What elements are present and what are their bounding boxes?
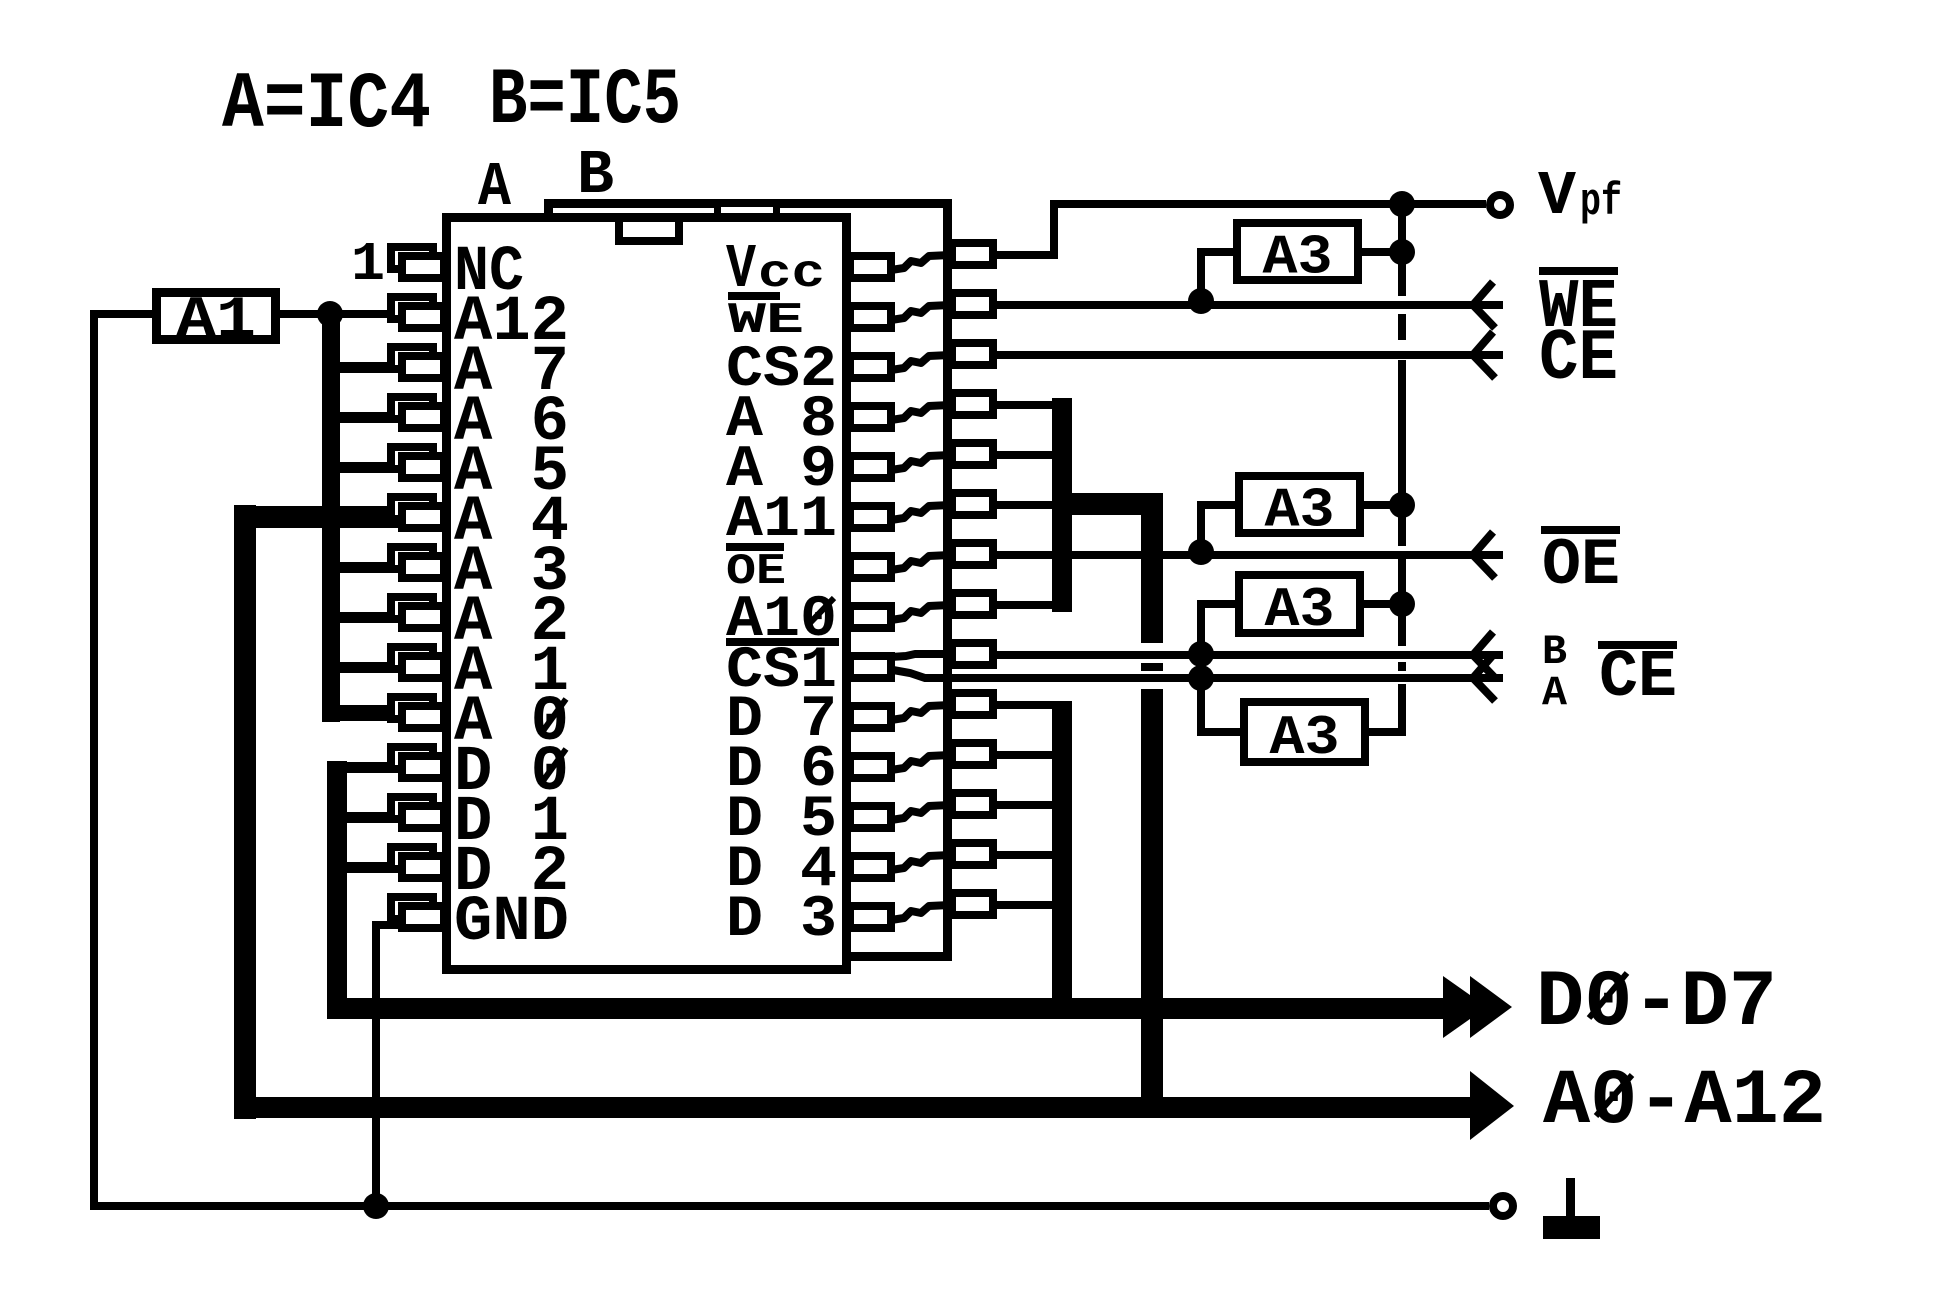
wire OE line (995, 551, 1503, 559)
wire B CE line (995, 651, 1503, 659)
pin Vcc right (B) box (952, 243, 993, 265)
node A3#4-ACE junction (1188, 665, 1214, 691)
lead A3#1 left to WE line (1201, 252, 1233, 301)
pin D 6 right (A) box (850, 756, 891, 778)
ground symbol (1543, 1178, 1600, 1239)
pin A 8 right (B) box (952, 393, 993, 415)
outer vertical bus to address bus (upper) (1141, 497, 1163, 643)
IC A notch (619, 218, 679, 241)
pin CS2 right (B) box (952, 343, 993, 365)
wire A1 feed (322, 662, 402, 673)
slash of zero in D0-D7 (1589, 973, 1627, 1018)
pin D 3 squiggle link (891, 905, 950, 920)
arrow CE (1473, 332, 1495, 378)
address bus vertical (A12..A0 collector) (322, 314, 340, 722)
wire Vcc to Vpf rail (995, 204, 1486, 255)
svg-text:A3: A3 (1265, 479, 1335, 543)
box A3 #1 (1237, 223, 1358, 280)
svg-text:A3: A3 (1263, 226, 1333, 290)
wire left vertical to ground rail (90, 310, 98, 1206)
wire A6 feed (322, 412, 402, 423)
wire CE line (995, 351, 1503, 359)
pin A 9 right (B) box (952, 443, 993, 465)
pin D 1 left (A) box (402, 806, 444, 828)
pin label OE (726, 543, 786, 597)
node A3#1-WE junction (1188, 288, 1214, 314)
svg-text:A3: A3 (1270, 706, 1340, 770)
wire A0 feed (bus bottom bend) (322, 705, 402, 721)
data bus D0-D7 horizontal (327, 998, 1446, 1019)
wire D6 to collector (995, 751, 1062, 759)
pin CS1 right (A) box (850, 656, 891, 678)
wire D2 feed (327, 862, 402, 873)
pin A 2 left (A) box (402, 606, 444, 628)
lead A3#3 right (1364, 600, 1402, 608)
outer vertical bus dash between CE lines (1141, 663, 1163, 671)
svg-text:A: A (1542, 669, 1568, 717)
collector bar A8/A9/A11/A10 (1052, 398, 1072, 612)
box A1 (address buffer) (157, 293, 276, 340)
pin WE right (B) box (952, 293, 993, 315)
pin D 0 left (B) box (391, 747, 433, 769)
pin D 7 right (B) box (952, 693, 993, 715)
pin A 0 left (B) box (391, 697, 433, 719)
pin OE squiggle link (891, 555, 950, 570)
svg-text:A: A (478, 152, 512, 223)
pin A 9 squiggle link (891, 455, 950, 470)
wire A10 to collector (995, 601, 1062, 609)
svg-text:OE: OE (1542, 528, 1620, 603)
arrow B CE (1473, 632, 1495, 678)
IC B (IC5) body outline (549, 204, 948, 957)
wire A9 to collector (995, 451, 1062, 459)
pin A 1 left (B) box (391, 647, 433, 669)
wire D3 to collector (995, 901, 1062, 909)
svg-text:pf: pf (1580, 177, 1622, 228)
pin A 6 left (A) box (402, 406, 444, 428)
svg-text:D 3: D 3 (726, 888, 837, 953)
slash of zero in pin label A 0 (540, 699, 566, 735)
wire A2 feed (322, 612, 402, 623)
wire D7 to collector (995, 701, 1062, 709)
pin D 6 right (B) box (952, 743, 993, 765)
svg-text:V: V (1538, 161, 1577, 232)
arrow OE (1473, 532, 1495, 578)
wire D1 feed (327, 812, 402, 823)
pin OE right (A) box (850, 556, 891, 578)
wire A CE line (893, 670, 1503, 678)
pin D 3 right (B) box (952, 893, 993, 915)
label OE (overline) (1541, 526, 1620, 603)
pin A 4 left (B) box (391, 497, 433, 519)
pin A 5 left (A) box (402, 456, 444, 478)
lead A3#4 left to A CE line (1201, 682, 1240, 732)
pin A 0 left (A) box (402, 706, 444, 728)
svg-text:CE: CE (1599, 640, 1677, 716)
pin D 1 left (B) box (391, 797, 433, 819)
svg-text:A0-A12: A0-A12 (1543, 1058, 1826, 1146)
pin WE right (A) box (850, 306, 891, 328)
wire D0 feed (327, 762, 402, 773)
pin CS1 right (B) box (952, 643, 993, 665)
svg-text:GND: GND (454, 887, 569, 959)
pin A 5 left (B) box (391, 447, 433, 469)
lead A3#2 right (1364, 501, 1402, 509)
pin CS1 squiggle link (891, 654, 950, 657)
pin NC left (B) box (391, 247, 433, 269)
wire D4 to collector (995, 851, 1062, 859)
label WE (overline) (1539, 267, 1618, 348)
pin D 4 right (B) box (952, 843, 993, 865)
pin A 1 left (A) box (402, 656, 444, 678)
label Vpf (1538, 161, 1622, 232)
node Vpf-rail junction (1389, 191, 1415, 217)
lead A3#4 right (1369, 728, 1402, 732)
pin A 6 left (B) box (391, 397, 433, 419)
svg-text:CE: CE (1539, 318, 1618, 400)
outer address bus vertical (234, 505, 256, 1119)
node A3#3-BCE junction (1188, 641, 1214, 667)
wire GND pin lead (376, 925, 398, 1202)
box A3 #3 (1239, 575, 1360, 633)
pin A 8 squiggle link (891, 405, 950, 420)
pin A12 left (B) box (391, 297, 433, 319)
ground terminal circle (1493, 1196, 1513, 1216)
pin A 8 right (A) box (850, 406, 891, 428)
pin GND left (A) box (402, 906, 444, 928)
pin label WE (728, 292, 804, 346)
pin D 3 right (A) box (850, 906, 891, 928)
outer vertical bus to address bus (lower) (1141, 689, 1163, 1118)
slash of zero in pin label D 0 (540, 749, 566, 785)
pin D 5 squiggle link (891, 805, 950, 820)
pin A12 left (A) box (402, 306, 444, 328)
lead A3#1 right (1362, 248, 1402, 256)
pin A11 squiggle link (891, 505, 950, 520)
pin Vcc squiggle link (891, 255, 950, 270)
IC B notch (718, 204, 777, 219)
node A3#2-OE junction (1188, 539, 1214, 565)
pin D 0 left (A) box (402, 756, 444, 778)
wire A7 feed (322, 362, 402, 373)
wire A1 right lead to A12 node (280, 310, 326, 318)
pin D 4 right (A) box (850, 856, 891, 878)
pin D 6 squiggle link (891, 755, 950, 770)
thick link address bus to outer bus (234, 506, 341, 528)
address bus A0-A12 horizontal (234, 1097, 1474, 1118)
pin D 2 left (A) box (402, 856, 444, 878)
wire A11 to collector (995, 501, 1062, 509)
collector bar D7..D3 (1052, 701, 1072, 1019)
svg-text:B=IC5: B=IC5 (489, 56, 681, 147)
pin CS2 right (A) box (850, 356, 891, 378)
pin A 7 left (A) box (402, 356, 444, 378)
node A3#1 right junction (1389, 239, 1415, 265)
label CE (overline) for A/B CE (1598, 640, 1677, 716)
pin A11 right (B) box (952, 493, 993, 515)
pin D 7 right (A) box (850, 706, 891, 728)
arrow WE (1473, 282, 1495, 328)
wire A8 to collector (995, 401, 1062, 409)
lead A3#2 left to OE line (1201, 505, 1235, 551)
node GND-rail junction (363, 1193, 389, 1219)
arrow A CE (1473, 655, 1495, 701)
node A3#2 right junction (1389, 492, 1415, 518)
node A12 junction (317, 301, 343, 327)
pin A10 squiggle link (891, 605, 950, 620)
slash of zero in A10 (807, 598, 834, 626)
svg-text:1: 1 (351, 233, 385, 296)
pin D 2 left (B) box (391, 847, 433, 869)
wire A4 feed (322, 506, 402, 528)
pin NC left (A) box (402, 256, 444, 278)
box A3 #4 (1244, 702, 1365, 762)
pin label CS1 (726, 638, 839, 704)
bus arrow A0-A12 (1470, 1071, 1514, 1140)
pin OE right (B) box (952, 543, 993, 565)
wire A1 left lead (94, 310, 152, 318)
pin GND left (B) box (391, 897, 433, 919)
svg-text:D0-D7: D0-D7 (1536, 958, 1777, 1049)
terminal Vpf circle (1490, 195, 1510, 215)
wire A3 feed (322, 562, 402, 573)
pin D 7 squiggle link (891, 705, 950, 720)
bus arrow D0-D7 (double) (1443, 976, 1512, 1038)
pin A 4 left (A) box (402, 506, 444, 528)
pin A 9 right (A) box (850, 456, 891, 478)
wire A12 pin connection (326, 310, 398, 318)
data bus vertical (D0..D2 collector) (327, 761, 347, 1019)
pin A 7 left (B) box (391, 347, 433, 369)
pin A10 right (B) box (952, 593, 993, 615)
pin D 5 right (B) box (952, 793, 993, 815)
pin CS2 squiggle link (891, 355, 950, 370)
pin A10 right (A) box (850, 606, 891, 628)
ground rail horizontal (90, 1202, 1489, 1210)
pin A 3 left (B) box (391, 547, 433, 569)
wire A5 feed (322, 462, 402, 473)
pin D 5 right (A) box (850, 806, 891, 828)
pin A 2 left (B) box (391, 597, 433, 619)
pin A 3 left (A) box (402, 556, 444, 578)
pin A11 right (A) box (850, 506, 891, 528)
dashed vertical tie line (1398, 204, 1406, 733)
pin D 4 squiggle link (891, 855, 950, 870)
pin WE squiggle link (891, 305, 950, 320)
pin label Vcc (726, 234, 825, 305)
IC A (IC4) body outline (447, 218, 847, 970)
pin Vcc right (A) box (850, 256, 891, 278)
svg-text:A3: A3 (1265, 578, 1335, 642)
slash of zero in A0-A12 (1596, 1075, 1632, 1116)
wire WE line (995, 301, 1503, 309)
lead A3#3 left to B CE line (1201, 604, 1235, 651)
wire D5 to collector (995, 801, 1062, 809)
node A3#3 right junction (1389, 591, 1415, 617)
svg-text:A1: A1 (176, 289, 256, 354)
box A3 #2 (1239, 476, 1360, 533)
thick link collector to outer vertical (1052, 493, 1163, 515)
svg-text:A=IC4: A=IC4 (222, 60, 431, 151)
